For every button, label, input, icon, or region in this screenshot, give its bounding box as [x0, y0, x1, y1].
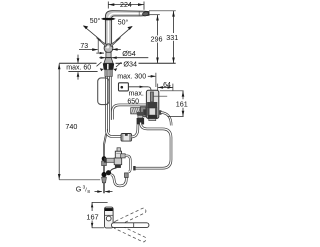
svg-text:Ø54: Ø54	[122, 49, 136, 58]
filter hose from bundle	[106, 129, 121, 137]
nut fittings on pipe	[102, 156, 107, 161]
thin supply pipe	[103, 134, 105, 194]
filter box	[121, 134, 132, 142]
unit exit hose to loop right	[161, 113, 171, 126]
svg-text:296: 296	[151, 35, 163, 44]
svg-text:max. 60: max. 60	[66, 65, 91, 72]
ball joint	[104, 44, 113, 53]
svg-text:50°: 50°	[118, 18, 129, 26]
ext line from spout top (331)	[149, 10, 176, 12]
mounting bracket below counter	[98, 78, 109, 105]
svg-text:G: G	[76, 184, 82, 193]
elbow hose from right nipple down	[125, 156, 130, 172]
dim 161	[160, 90, 184, 92]
control unit	[146, 90, 158, 118]
converging arrows at supply pipe	[95, 191, 102, 193]
svg-text:331: 331	[166, 33, 178, 42]
dashed swivel positions	[113, 207, 146, 227]
small arrows at locknut	[100, 68, 104, 71]
threaded shank	[105, 70, 112, 77]
dark base through counter	[103, 63, 114, 69]
svg-text:8: 8	[87, 189, 90, 194]
counter top line	[59, 62, 96, 64]
fitting flange	[140, 107, 146, 117]
circuit-free technical drawing of a kitchen faucet with dimensions	[0, 0, 247, 247]
max. 60	[77, 55, 79, 63]
valve assembly	[117, 148, 120, 152]
svg-text:224: 224	[120, 2, 132, 9]
svg-text:Ø34: Ø34	[123, 60, 137, 69]
spout bar	[112, 223, 149, 228]
power supply box	[119, 83, 129, 91]
body (top view)	[105, 207, 114, 228]
svg-text:161: 161	[176, 100, 188, 109]
svg-text:50°: 50°	[90, 17, 101, 25]
arc filter to connector	[132, 125, 138, 137]
svg-text:740: 740	[65, 122, 77, 131]
cable to control unit	[128, 86, 148, 88]
left arrow at ball width	[96, 52, 104, 54]
lever bar (black)	[101, 18, 116, 20]
svg-text:max. 300: max. 300	[117, 74, 146, 81]
dimension 224 (top)	[108, 2, 144, 10]
hose bundle from shank	[106, 77, 112, 133]
flare to base	[104, 58, 113, 64]
svg-text:167: 167	[86, 212, 98, 221]
svg-text:73: 73	[80, 43, 88, 50]
dim 740	[58, 64, 60, 180]
svg-text:650: 650	[127, 98, 139, 105]
U hanging hose	[111, 175, 126, 186]
counter bottom line	[68, 71, 97, 73]
neck below ball	[106, 52, 111, 57]
dim 167	[92, 201, 108, 203]
dim 296	[157, 15, 159, 36]
spray head end	[138, 11, 140, 16]
svg-text:max.: max.	[129, 91, 144, 98]
break marks	[97, 62, 102, 66]
ext line from spout bottom (296)	[149, 14, 160, 16]
dia 54 label	[112, 48, 121, 50]
connector stack below	[137, 112, 144, 116]
faucet spout tube (elbow + horizontal)	[105, 11, 149, 21]
dia line with inward arrows at neck	[99, 57, 148, 59]
dim 331	[173, 11, 175, 33]
bottom ext line at G connection	[59, 179, 100, 181]
hatched braid bar	[131, 108, 141, 114]
riser pipe	[105, 20, 111, 45]
hose to control unit (horizontal y=105)	[112, 105, 146, 120]
big hose loop	[134, 123, 171, 169]
angle leader lines 50deg	[84, 26, 102, 41]
lever spindles	[96, 38, 107, 47]
